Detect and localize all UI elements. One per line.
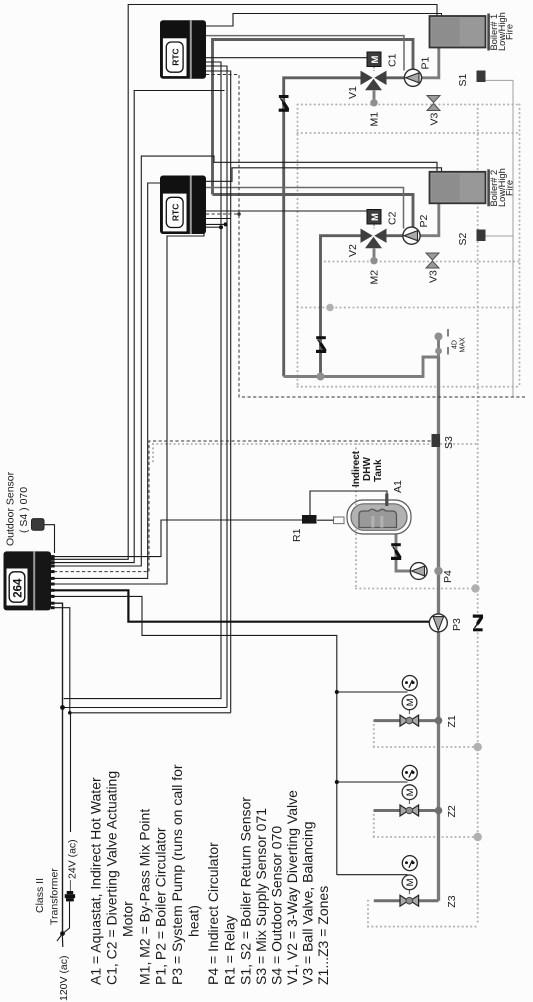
junction RTC2 bus a xyxy=(219,225,223,229)
wire RTC 2 tap c xyxy=(206,218,231,220)
svg-text:P4 = Indirect Circulator: P4 = Indirect Circulator xyxy=(205,842,221,985)
pipe boiler 2 supply header xyxy=(213,195,414,228)
svg-text:M: M xyxy=(370,213,381,221)
wire RTC 1 down bus b xyxy=(206,66,227,708)
svg-text:S2: S2 xyxy=(457,232,469,245)
svg-text:C1: C1 xyxy=(387,53,399,67)
junction ball riser at P4 xyxy=(434,567,442,575)
pipe valve V2 to pump P2 xyxy=(386,234,403,237)
mix point M2 ball xyxy=(370,257,377,264)
svg-text:M2: M2 xyxy=(369,270,381,285)
junction ball manifold jog xyxy=(435,348,442,355)
junction ball on return riser zone 1 xyxy=(474,743,482,751)
svg-text:S1, S2 = Boiler Return Sensor: S1, S2 = Boiler Return Sensor xyxy=(238,797,254,985)
DHW tank coil xyxy=(359,509,397,527)
svg-text:120V (ac): 120V (ac) xyxy=(58,955,70,1001)
check valve circuit 2 xyxy=(316,336,326,353)
class II transformer symbol xyxy=(67,891,74,894)
zone valve motor link Z3 xyxy=(408,890,410,894)
svg-text:RTC: RTC xyxy=(170,204,180,221)
wire aquastat A1 to tank xyxy=(310,491,387,515)
svg-text:DHW: DHW xyxy=(362,457,373,481)
svg-text:Tank: Tank xyxy=(373,459,384,482)
svg-text:V2: V2 xyxy=(347,244,359,257)
boiler B1 body xyxy=(430,16,486,48)
check valve circuit 1 xyxy=(279,95,289,112)
svg-text:P1: P1 xyxy=(420,56,432,69)
svg-text:Z1: Z1 xyxy=(446,715,458,727)
wire RTC 1 to boiler 1 xyxy=(206,14,442,27)
wire 264 to relay R1 xyxy=(54,520,303,557)
svg-text:Fire: Fire xyxy=(504,180,514,196)
dashed boundary plant right edge xyxy=(518,105,520,387)
dashed boundary lower zone box left edge xyxy=(152,444,154,462)
svg-text:S1: S1 xyxy=(457,73,469,86)
svg-text:V3: V3 xyxy=(428,270,440,283)
check valve return riser xyxy=(473,615,483,632)
pipe pump P2 to boiler 2 xyxy=(420,202,439,235)
dashed DHW boundary left edge xyxy=(355,444,357,589)
wire RTC 2 tap b xyxy=(206,223,226,225)
pipe zone 2 branch xyxy=(374,809,439,812)
junction RTC2 bus b xyxy=(224,222,228,226)
wire 264 to boiler 2 xyxy=(54,156,437,566)
4D MAX dimension ticks xyxy=(447,329,449,337)
svg-text:V1: V1 xyxy=(347,86,359,99)
svg-text:RTC: RTC xyxy=(170,48,180,65)
wire 264 120V feed xyxy=(54,603,63,933)
junction ball riser at zone 1 xyxy=(435,717,443,725)
wire RTC 1 to pump P1 xyxy=(206,36,404,71)
junction zone 1 wire xyxy=(335,690,339,694)
svg-text:264: 264 xyxy=(13,578,25,598)
svg-text:M: M xyxy=(405,878,416,886)
junction ball on DHW boundary xyxy=(471,584,479,592)
dashed boundary circuit 1 bottom edge xyxy=(298,132,520,134)
balancing valve V3 circuit 1 xyxy=(427,96,440,103)
svg-text:4D: 4D xyxy=(452,340,459,349)
svg-text:M: M xyxy=(370,56,381,64)
svg-text:Class II: Class II xyxy=(34,878,46,913)
junction zone 2 wire xyxy=(335,780,339,784)
mix point M1 ball xyxy=(370,99,377,106)
svg-text:S3 = Mix Supply Sensor 071: S3 = Mix Supply Sensor 071 xyxy=(253,808,269,985)
check valve DHW xyxy=(391,543,401,560)
zone valve motor Z1 xyxy=(402,695,417,710)
dashed return riser xyxy=(477,105,479,926)
dashed wire RTC 2 boiler sensor tap xyxy=(206,213,239,215)
dashed wire 264 to sensor S3 xyxy=(54,441,432,572)
svg-text:M1: M1 xyxy=(369,112,381,127)
valve motor M1 box xyxy=(367,52,381,67)
pipe valve V1 bypass drop xyxy=(284,78,361,377)
wire 264 to RTC 2 b xyxy=(54,234,204,585)
dashed boundary plant bottom edge xyxy=(298,386,520,388)
pump P1 xyxy=(404,69,421,86)
svg-text:Z1...Z3 = Zones: Z1...Z3 = Zones xyxy=(315,886,331,985)
svg-text:Z2: Z2 xyxy=(446,805,458,817)
pipe valve V2 bypass drop xyxy=(321,236,361,377)
svg-text:P4: P4 xyxy=(442,570,454,583)
pipe zone 1 branch xyxy=(374,719,439,722)
svg-text:Motor: Motor xyxy=(120,901,136,937)
sensor S3 xyxy=(432,434,441,447)
pipe main system riser xyxy=(437,357,440,901)
tank top stub xyxy=(385,494,388,507)
valve V1 3-way diverting xyxy=(361,71,373,85)
pipe DHW tank drop xyxy=(396,534,410,572)
zone valve motor link Z1 xyxy=(408,710,410,714)
svg-text:P3: P3 xyxy=(451,618,463,631)
svg-text:Z3: Z3 xyxy=(446,895,458,907)
wire 264 to zone valves bus xyxy=(54,596,337,874)
zone valve motor Z2 xyxy=(402,785,417,800)
svg-text:R1: R1 xyxy=(291,528,303,542)
svg-text:C2: C2 xyxy=(387,211,399,225)
dashed link M1 to valve V1 xyxy=(373,67,375,72)
junction ball circuit2 drop at manifold xyxy=(317,373,325,381)
wire 264 to boiler 1 xyxy=(54,5,437,560)
wire RTC 2 to valve motor C2 xyxy=(206,210,367,212)
boiler control RTC 1 xyxy=(160,20,206,78)
wire RTC 1 to valve motor C1 xyxy=(206,57,367,59)
svg-text:Fire: Fire xyxy=(504,24,514,40)
svg-text:V1, V2 = 3-Way Diverting Valve: V1, V2 = 3-Way Diverting Valve xyxy=(284,790,300,985)
zone valve motor Z3 xyxy=(402,875,417,890)
svg-text:R1 = Relay: R1 = Relay xyxy=(222,915,238,985)
wire transformer secondary xyxy=(69,713,72,832)
dashed boundary lower zone box top edge xyxy=(153,443,478,445)
wire RTC 2 tap a xyxy=(206,226,221,228)
sensor S1 xyxy=(477,71,486,83)
wire RTC 1 down bus a xyxy=(64,62,221,699)
zone valve Z2 xyxy=(400,805,409,816)
aquastat well xyxy=(334,517,345,524)
pipe mix manifold xyxy=(284,337,439,377)
svg-text:Indirect: Indirect xyxy=(351,450,362,487)
junction 120V bus xyxy=(60,705,65,710)
wire 264 to pump P3 xyxy=(54,590,429,621)
wire zone 2 valve xyxy=(337,781,408,783)
junction transformer tap xyxy=(60,931,65,936)
svg-text:A1 = Aquastat, Indirect Hot Wa: A1 = Aquastat, Indirect Hot Water xyxy=(88,777,104,985)
svg-text:P1, P2 = Boiler Circulator: P1, P2 = Boiler Circulator xyxy=(153,827,169,985)
svg-text:V3: V3 xyxy=(429,112,441,125)
dashed boundary circuit 2 inner edge xyxy=(321,260,520,262)
valve V1 bypass stem xyxy=(373,91,376,101)
dashed boundary boiler plant top edge xyxy=(298,103,520,105)
dashed DHW boundary bottom edge xyxy=(356,587,478,589)
junction ball on circuit 2 dashed edge xyxy=(326,304,334,312)
wire RTC 1 down bus c xyxy=(206,71,231,713)
svg-text:M: M xyxy=(405,698,416,706)
svg-text:24V (ac): 24V (ac) xyxy=(67,839,79,879)
wire 264 riser to bus join xyxy=(54,91,225,563)
thermostat Z2 xyxy=(402,765,417,780)
pipe boiler 1 supply header xyxy=(213,40,414,195)
svg-text:M1, M2 = By-Pass Mix Point: M1, M2 = By-Pass Mix Point xyxy=(137,809,153,985)
zone valve motor link Z2 xyxy=(408,800,410,804)
boiler B1 mounting plate xyxy=(487,14,490,51)
svg-text:Transformer: Transformer xyxy=(49,868,61,925)
wire 264 to RTC 2 a xyxy=(54,183,160,578)
pipe pump P1 to boiler 1 xyxy=(422,47,439,78)
zone 1 dashed return xyxy=(373,721,375,747)
dashed boundary plant left edge xyxy=(296,105,298,387)
thermostat Z3 xyxy=(402,856,417,871)
svg-text:S3: S3 xyxy=(443,436,455,449)
wire RTC 2 to boiler 2 xyxy=(206,168,442,182)
dashed wire RTC 1 boiler sensor xyxy=(206,75,525,398)
sensor S2 xyxy=(477,230,486,242)
wire outdoor sensor S4 xyxy=(44,525,55,553)
svg-text:S4 = Outdoor Sensor 070: S4 = Outdoor Sensor 070 xyxy=(269,826,285,985)
zone 2 dashed return xyxy=(373,811,375,838)
junction dashed bus xyxy=(237,212,241,216)
svg-text:P3 = System Pump (runs on call: P3 = System Pump (runs on call for xyxy=(169,764,185,985)
valve V2 3-way diverting xyxy=(361,229,373,243)
zone 3 dashed return xyxy=(367,901,369,927)
outdoor sensor S4 xyxy=(32,519,45,531)
valve V2 bypass stem xyxy=(373,248,376,258)
junction ball on return riser zone 2 xyxy=(474,833,482,841)
junction ball riser at zone 2 xyxy=(435,807,443,815)
boiler control RTC 2 xyxy=(160,176,206,235)
valve motor M2 box xyxy=(367,210,381,225)
thermostat Z1 xyxy=(402,676,417,691)
wire sensor S2 xyxy=(486,236,514,397)
wire RTC 2 to pump P2 xyxy=(206,188,404,229)
wire zone 1 valve xyxy=(337,691,408,693)
pump P3 xyxy=(429,614,447,632)
wire bus to 24V terminal xyxy=(54,608,231,713)
dashed link M2 to valve V2 xyxy=(373,224,375,229)
indirect DHW tank shell xyxy=(347,500,411,534)
tekmar 264 control xyxy=(4,551,52,610)
svg-text:heat): heat) xyxy=(186,905,202,937)
dashed boundary plant middle edge xyxy=(298,306,520,308)
svg-text:V3 = Ball Valve, Balancing: V3 = Ball Valve, Balancing xyxy=(300,821,316,985)
zone valve Z3 xyxy=(400,895,409,906)
boiler B2 mounting plate xyxy=(487,169,490,206)
pump P4 xyxy=(410,563,427,580)
wire bus to 120V terminal xyxy=(63,707,228,709)
zone valve Z1 xyxy=(400,715,409,726)
balancing valve V3 circuit 2 xyxy=(426,253,439,260)
svg-text:P2: P2 xyxy=(418,214,430,227)
boiler B2 body xyxy=(430,172,486,204)
wire sensor S1 xyxy=(486,80,514,236)
wire 120V label lead xyxy=(57,934,63,941)
pump P2 xyxy=(403,227,420,244)
svg-text:MAX: MAX xyxy=(460,337,467,353)
svg-text:Outdoor Sensor: Outdoor Sensor xyxy=(5,471,17,546)
pipe valve V1 to pump P1 xyxy=(386,76,404,79)
svg-text:C1, C2 = Diverting Valve Actua: C1, C2 = Diverting Valve Actuating xyxy=(104,771,120,985)
junction ball manifold top xyxy=(435,333,443,341)
relay R1 box xyxy=(302,515,317,524)
wire zone 3 valve xyxy=(337,874,408,876)
wire transformer drop xyxy=(63,901,69,933)
junction 24V tap xyxy=(68,711,72,715)
svg-text:M: M xyxy=(405,788,416,796)
pipe zone 3 branch xyxy=(374,899,439,902)
svg-text:( S4 ) 070: ( S4 ) 070 xyxy=(18,487,30,533)
svg-text:A1: A1 xyxy=(392,480,404,493)
